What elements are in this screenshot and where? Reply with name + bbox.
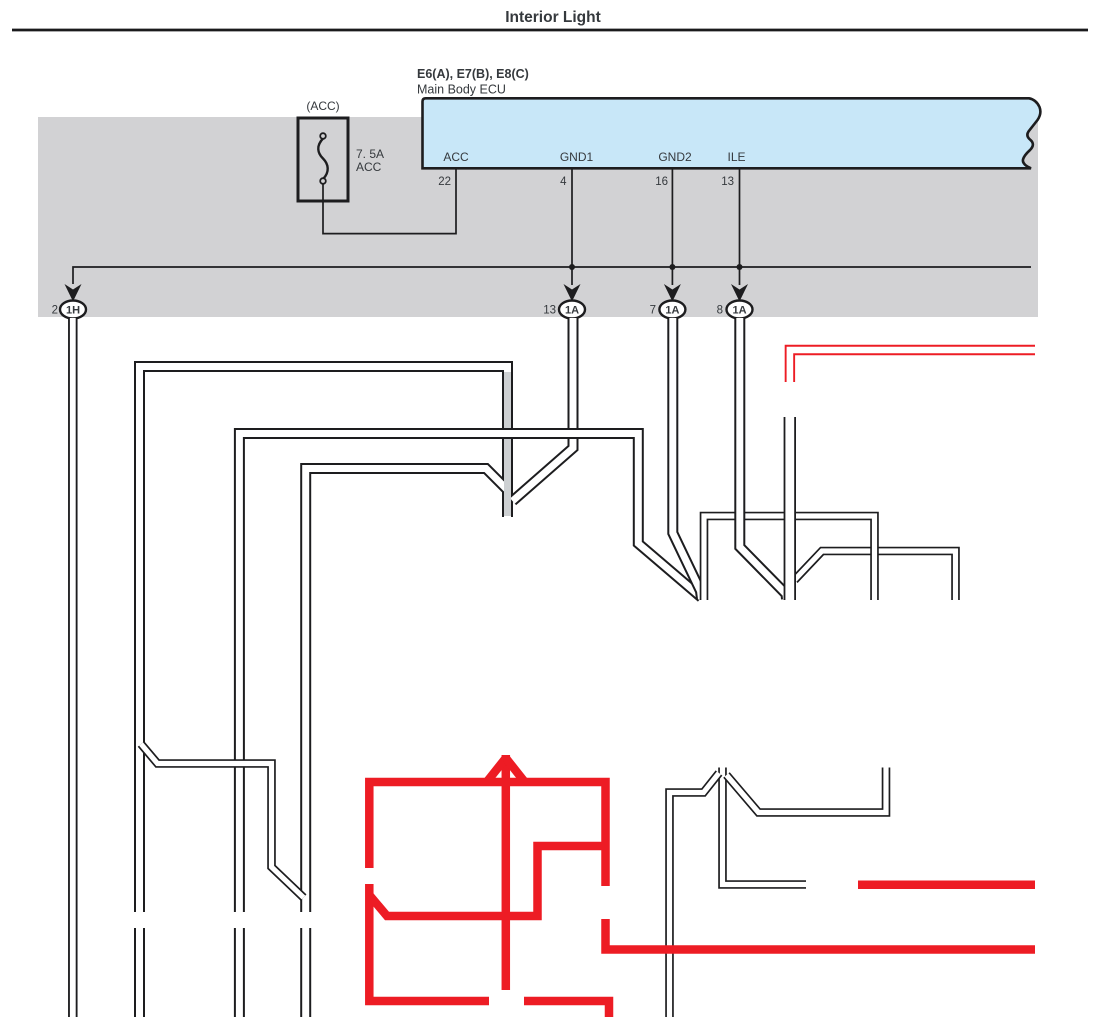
wire W (LHD) branch from room lamp front pin 1 down to bottom bbox=[670, 773, 720, 1017]
wire R below RE3 pin 14 to right break bbox=[606, 919, 1036, 950]
wire W (RHD) from RE3 pin 6 to room lamp front pin 2 bbox=[784, 417, 796, 600]
connector 2 (1H) bbox=[60, 301, 86, 319]
wire R (RHD *11) branch to RE3 pin 14 bbox=[369, 846, 601, 916]
wire W-B (RHD) from RE3 pin 1 to room lamp front pin 3 bbox=[239, 434, 701, 913]
wire R-W (RHD) to RE3 pin 6 bbox=[790, 350, 1035, 382]
svg-text:1A: 1A bbox=[665, 305, 679, 317]
wire core above map lamp connector A bbox=[504, 372, 511, 516]
wire ILE pin 13 drop bbox=[739, 168, 741, 285]
gray harness band bbox=[38, 117, 1038, 317]
main body ECU box U1 E6(A),E7(B),E8(C) bbox=[417, 67, 1040, 188]
wire ACC: fuse to ECU pin 22 bbox=[323, 168, 456, 234]
wire W-B pair from connector 1H down bbox=[68, 318, 78, 1017]
svg-text:(ACC): (ACC) bbox=[306, 99, 339, 113]
wire W-B (RHD *12) from RE3 pin 9 to map lamp merge bbox=[306, 469, 507, 913]
small connector boxes, circles, arrows bbox=[0, 0, 1, 1]
junction dot ILE/bus bbox=[737, 264, 743, 270]
wire W-B (*1 *11) via Q5 and RQ1 to RE3 pin 2 and map lamp bbox=[140, 367, 508, 913]
connector 13 (1A) bbox=[559, 301, 585, 319]
svg-text:13: 13 bbox=[543, 305, 556, 317]
svg-text:22: 22 bbox=[438, 176, 451, 188]
svg-text:ACC: ACC bbox=[356, 160, 382, 174]
component boxes bbox=[0, 0, 1, 1]
red wires bbox=[369, 350, 1035, 1017]
svg-text:7: 7 bbox=[650, 305, 656, 317]
svg-text:1A: 1A bbox=[565, 305, 579, 317]
arrow into 8 1A bbox=[731, 284, 748, 302]
wire ground bus at y267 bbox=[73, 267, 1031, 284]
svg-text:GND1: GND1 bbox=[560, 150, 594, 164]
svg-text:1H: 1H bbox=[66, 305, 80, 317]
wire W-B below RE3 pin 9 bbox=[300, 928, 311, 1017]
wire W (LHD) from connector 7 1A to room lamp front pin 3 bbox=[673, 318, 702, 599]
wire W (LHD) from connector 8 1A to room lamp front pin 2 bbox=[740, 318, 787, 599]
wire R from octagon right bbox=[524, 1001, 609, 1017]
wire W-B (RHD *11) branch from RQ1 to RE3 pin 9 bbox=[141, 744, 304, 898]
svg-text:Main Body ECU: Main Body ECU bbox=[417, 83, 506, 97]
wire R fan right at connector B bbox=[506, 758, 524, 781]
wire R below RQ1 pin 4 to octagon bbox=[369, 884, 489, 1001]
svg-text:E6(A), E7(B), E8(C): E6(A), E7(B), E8(C) bbox=[417, 67, 529, 81]
wire W bus room lamp front pin 2 to room lamp rear pin 2 bbox=[795, 551, 956, 600]
wire R main drop from map lamp connector B bbox=[502, 755, 511, 990]
junction dot GND1/bus bbox=[569, 264, 575, 270]
svg-text:GND2: GND2 bbox=[658, 150, 692, 164]
connector 8 (1A) bbox=[727, 301, 753, 319]
thin black wires (ACC net + ground bus) bbox=[73, 168, 1031, 285]
svg-text:1A: 1A bbox=[732, 305, 746, 317]
fuse ACC 7.5A bbox=[298, 99, 384, 201]
wire W-B below RE3 pin 2 bbox=[134, 928, 145, 1017]
svg-text:16: 16 bbox=[655, 176, 668, 188]
svg-text:13: 13 bbox=[721, 176, 734, 188]
title rule bbox=[12, 29, 1088, 32]
break squiggles bbox=[0, 0, 1, 1]
wire W bus room lamp front pin 3 to room lamp rear pin 3 bbox=[704, 516, 875, 600]
connector 7 (1A) bbox=[659, 301, 685, 319]
arrow into 7 1A bbox=[664, 284, 681, 302]
wire R (*1 *11) / (RHD *12) top horizontal bbox=[369, 782, 605, 886]
svg-text:Interior Light: Interior Light bbox=[505, 9, 601, 26]
svg-text:8: 8 bbox=[717, 305, 723, 317]
wire GND2 pin 16 drop bbox=[671, 168, 673, 285]
wire R fan left at connector B bbox=[488, 758, 506, 781]
svg-text:2: 2 bbox=[52, 305, 58, 317]
text labels bbox=[0, 0, 1, 1]
arrow into 13 1A bbox=[564, 284, 581, 302]
page title bbox=[12, 9, 1088, 30]
wire GND1 pin 4 drop bbox=[571, 168, 573, 285]
band connector ovals + arrows bbox=[52, 284, 753, 319]
svg-text:ILE: ILE bbox=[727, 150, 745, 164]
hollow wires bbox=[73, 318, 956, 1017]
wire W from room lamp front pin 1 down (RHD) to RE3 pin 7 bbox=[723, 768, 807, 885]
wire R (RHD) from break to RE3 pin 7 bbox=[858, 881, 1035, 890]
arrow into 1H bbox=[65, 284, 82, 302]
svg-text:ACC: ACC bbox=[443, 150, 469, 164]
junction dot GND2/bus bbox=[669, 264, 675, 270]
wire W from room lamp front pin 1 to room lamp rear pin 1 bbox=[727, 768, 887, 813]
wire W-B below RE3 pin 1 bbox=[234, 928, 245, 1017]
svg-text:7. 5A: 7. 5A bbox=[356, 147, 384, 161]
svg-text:4: 4 bbox=[560, 176, 567, 188]
wire W-B (LHD *1 *12) from connector 13 1A to map lamp merge bbox=[513, 318, 574, 501]
